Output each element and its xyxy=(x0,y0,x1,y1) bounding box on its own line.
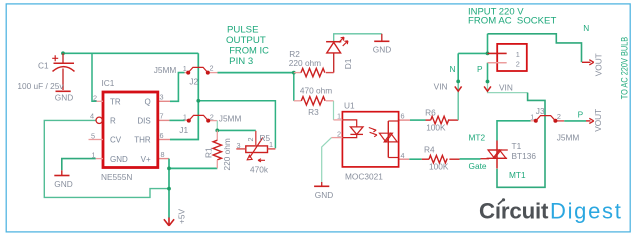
svg-text:OUTPUT: OUTPUT xyxy=(226,35,266,46)
svg-text:4: 4 xyxy=(401,151,405,160)
svg-text:1: 1 xyxy=(183,112,187,121)
wire Q pin3 to J2 pin1 xyxy=(158,73,188,102)
pin 4 R with bubble xyxy=(96,117,102,123)
wire GND pin1 to ground xyxy=(62,159,96,171)
wire V+ pin8 to +5V node xyxy=(158,159,169,218)
triac T1 BT136 xyxy=(487,141,537,169)
svg-text:100 uF / 25v: 100 uF / 25v xyxy=(17,81,64,91)
power flag +5V xyxy=(164,209,187,226)
wire MT2 to J3 pin1 xyxy=(497,121,536,141)
connector J2 xyxy=(154,64,214,87)
wire R2 right to D1 xyxy=(333,54,335,73)
svg-text:BT136: BT136 xyxy=(512,151,537,161)
svg-text:J5MM: J5MM xyxy=(219,113,242,123)
svg-text:TO AC 220V BULB: TO AC 220V BULB xyxy=(619,37,629,100)
svg-text:GND: GND xyxy=(55,93,73,103)
resistor R3 xyxy=(294,86,334,118)
net flag VOUT bottom P xyxy=(586,109,603,132)
internal triac xyxy=(387,121,389,158)
svg-text:VIN: VIN xyxy=(434,81,448,91)
svg-text:1: 1 xyxy=(516,50,520,59)
svg-text:Cırcuit: Cırcuit xyxy=(479,199,549,224)
svg-text:U1: U1 xyxy=(344,101,355,111)
svg-text:1: 1 xyxy=(91,150,95,159)
svg-text:2: 2 xyxy=(557,112,561,121)
svg-text:2: 2 xyxy=(210,64,214,73)
svg-text:2: 2 xyxy=(337,129,341,138)
svg-text:GND: GND xyxy=(54,179,72,189)
logo CircuitDigest xyxy=(479,198,623,223)
svg-text:VOUT: VOUT xyxy=(593,109,603,132)
resistor R6 xyxy=(425,107,449,132)
svg-text:+5V: +5V xyxy=(177,209,187,224)
junction node dots xyxy=(61,51,489,190)
svg-text:8: 8 xyxy=(161,150,165,159)
svg-text:100K: 100K xyxy=(426,123,446,133)
svg-text:C1: C1 xyxy=(38,61,49,71)
pin 5 CV xyxy=(89,139,104,141)
svg-text:6: 6 xyxy=(401,112,405,121)
svg-text:Digest: Digest xyxy=(550,199,623,224)
svg-text:GND: GND xyxy=(110,155,128,164)
wire U1 pin6 R6 to N line xyxy=(399,119,458,121)
wire AC pin2 P net down xyxy=(488,63,546,188)
wire D1 top to GND xyxy=(334,34,382,42)
svg-text:6: 6 xyxy=(160,131,164,140)
wire J1 pin2 down to R1 node xyxy=(208,121,217,131)
svg-text:P: P xyxy=(477,64,483,74)
wire DIS pin7 to J1 pin1 xyxy=(158,119,189,121)
connector AC input socket xyxy=(488,44,527,71)
ground D1 xyxy=(373,34,391,55)
svg-text:TR: TR xyxy=(110,97,121,106)
wire U1 pin4 R4 to gate xyxy=(399,158,489,161)
svg-text:D1: D1 xyxy=(343,58,353,69)
resistor R1 xyxy=(204,130,233,170)
svg-text:J2: J2 xyxy=(189,77,198,87)
svg-text:J1: J1 xyxy=(179,125,188,135)
svg-text:N: N xyxy=(583,23,589,33)
wire R1 node to R5 pin2 xyxy=(217,129,256,131)
svg-text:J5MM: J5MM xyxy=(154,65,177,75)
svg-text:R1: R1 xyxy=(204,147,214,158)
wire TR pin2 branch xyxy=(92,53,97,101)
svg-text:220 ohm: 220 ohm xyxy=(222,138,232,170)
op-amp IC1 NE555N box xyxy=(89,78,165,182)
annotation INPUT 220 V FROM AC SOCKET xyxy=(468,6,556,26)
svg-text:VOUT: VOUT xyxy=(594,53,604,76)
svg-text:470 ohm: 470 ohm xyxy=(300,86,332,96)
svg-text:2: 2 xyxy=(93,93,97,102)
svg-text:MOC3021: MOC3021 xyxy=(345,172,383,182)
svg-text:VIN: VIN xyxy=(499,82,513,92)
wire Q node right to R5 pin1 xyxy=(198,101,275,149)
wire J2 pin2 to R2 node xyxy=(208,72,294,74)
wire U1 pin2 to ground xyxy=(322,138,332,182)
svg-text:3: 3 xyxy=(236,141,240,150)
pin 1 xyxy=(334,119,343,121)
svg-text:7: 7 xyxy=(160,112,164,121)
svg-text:P: P xyxy=(578,109,584,119)
svg-text:2: 2 xyxy=(246,137,255,141)
svg-text:N: N xyxy=(450,64,456,74)
svg-text:1: 1 xyxy=(530,112,534,121)
svg-text:MT1: MT1 xyxy=(509,170,526,180)
annotation PULSE OUTPUT FROM IC PIN 3 xyxy=(226,25,269,68)
svg-text:CV: CV xyxy=(110,136,122,145)
svg-text:R6: R6 xyxy=(425,107,436,117)
wire R pin4 to +5V rail xyxy=(44,120,169,197)
net flag VOUT top N xyxy=(582,53,604,76)
LED D1 xyxy=(326,37,353,69)
ground IC1 pin1 xyxy=(54,170,72,189)
capacitor C1 xyxy=(52,53,74,90)
pin 2 TR xyxy=(97,100,104,102)
net flag VIN on P line xyxy=(484,82,513,92)
trimmer R5 xyxy=(236,131,275,175)
resistor R2 xyxy=(289,49,334,77)
wire N vertical with VIN tap xyxy=(458,52,487,54)
svg-text:1: 1 xyxy=(183,64,187,73)
svg-text:220 ohm: 220 ohm xyxy=(289,58,321,68)
svg-text:THR: THR xyxy=(134,136,151,145)
svg-text:GND: GND xyxy=(373,45,391,55)
svg-text:1: 1 xyxy=(337,112,341,121)
net flag VIN on N line xyxy=(434,81,462,91)
svg-text:4: 4 xyxy=(90,111,94,120)
svg-text:3: 3 xyxy=(160,93,164,102)
svg-text:V+: V+ xyxy=(141,155,151,164)
connector J3 xyxy=(530,106,579,143)
wire AC pin1 N net to VOUT top xyxy=(488,34,582,63)
light arrows xyxy=(369,128,376,133)
svg-text:2: 2 xyxy=(516,59,520,68)
svg-text:J5MM: J5MM xyxy=(557,132,580,142)
svg-text:470k: 470k xyxy=(250,164,269,174)
pin 1 GND xyxy=(96,158,103,160)
svg-text:T1: T1 xyxy=(512,141,522,151)
svg-text:FROM IC: FROM IC xyxy=(229,46,269,57)
svg-text:IC1: IC1 xyxy=(102,78,115,88)
svg-text:GND: GND xyxy=(315,190,333,200)
svg-text:R: R xyxy=(110,116,116,125)
svg-text:5: 5 xyxy=(91,131,95,140)
ground U1 pin2 xyxy=(314,182,333,200)
svg-text:Q: Q xyxy=(144,97,150,106)
resistor R4 xyxy=(424,144,449,171)
svg-text:100K: 100K xyxy=(429,161,449,171)
wire top rail C1 to J2 vertical xyxy=(63,52,198,54)
wire R2 node down to R3 xyxy=(293,73,295,101)
ground C1 xyxy=(55,91,73,102)
svg-text:Gate: Gate xyxy=(469,161,487,171)
svg-text:MT2: MT2 xyxy=(469,132,486,142)
svg-text:2: 2 xyxy=(210,112,214,121)
wire THR pin6 up through J1 J2 to Q node xyxy=(158,53,199,139)
pin 2 xyxy=(332,137,343,139)
svg-text:R4: R4 xyxy=(424,144,435,154)
svg-text:FROM AC SOCKET: FROM AC SOCKET xyxy=(468,16,556,27)
wire R3 to U1 pin1 xyxy=(333,101,335,120)
optocoupler U1 MOC3021 xyxy=(332,101,405,182)
connector J1 xyxy=(179,112,241,135)
svg-text:PULSE: PULSE xyxy=(227,25,259,36)
svg-text:R3: R3 xyxy=(308,107,319,117)
internal LED xyxy=(342,120,356,127)
svg-text:J3: J3 xyxy=(536,106,545,116)
svg-text:NE555N: NE555N xyxy=(101,172,132,182)
wire +5V node to R1 bottom xyxy=(169,167,217,169)
svg-text:R5: R5 xyxy=(260,133,271,143)
svg-text:DIS: DIS xyxy=(137,116,150,125)
svg-text:PIN 3: PIN 3 xyxy=(229,56,253,67)
wire J3 pin2 to VOUT P xyxy=(555,120,586,122)
